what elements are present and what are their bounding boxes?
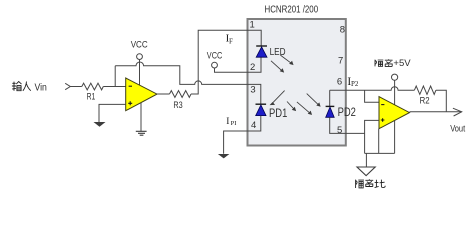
svg-text:PD2: PD2 bbox=[338, 107, 356, 119]
svg-text:+5V: +5V bbox=[393, 58, 411, 69]
light arrow 5 toward PD2 bbox=[297, 102, 310, 113]
svg-text:PD1: PD1 bbox=[269, 108, 287, 120]
wire op-amp output bbox=[157, 93, 170, 95]
light arrow 6 toward PD2 bbox=[307, 94, 319, 105]
wire U3 ground pin down bbox=[394, 120, 396, 153]
svg-text:F: F bbox=[229, 37, 233, 45]
wire R2 to output node bbox=[436, 90, 446, 112]
wire VCC to op-amp power pin bbox=[139, 60, 141, 86]
plus marker U3 bbox=[381, 118, 385, 122]
wire R3 to LED loop bbox=[191, 30, 261, 94]
svg-text:HCNR201 /200: HCNR201 /200 bbox=[265, 4, 319, 16]
ground arrow pin 4 bbox=[218, 154, 230, 158]
op-amp U2 bbox=[126, 78, 157, 111]
svg-text:LED: LED bbox=[270, 47, 286, 58]
node junction feedback bbox=[114, 66, 116, 87]
wire U3 output bbox=[410, 111, 462, 113]
wire U3 plus input down bbox=[365, 120, 379, 153]
wire pin 3 to PD1 bbox=[248, 84, 261, 104]
svg-text:R1: R1 bbox=[87, 91, 96, 102]
输入 label bbox=[12, 82, 31, 91]
output arrow bbox=[453, 108, 462, 116]
input arrow bbox=[65, 83, 70, 89]
svg-text:3: 3 bbox=[250, 84, 255, 95]
svg-text:VCC: VCC bbox=[207, 50, 223, 60]
svg-text:5: 5 bbox=[337, 125, 342, 136]
隔离+5V label bbox=[375, 59, 393, 66]
isolated +5V terminal circle bbox=[392, 74, 398, 80]
wire PD2 cathode up bbox=[329, 90, 331, 106]
svg-text:R3: R3 bbox=[173, 100, 182, 111]
resistor R1 bbox=[82, 83, 104, 90]
resistor R3 bbox=[170, 91, 192, 98]
VCC terminal circle 1 bbox=[137, 54, 143, 60]
VCC terminal circle 2 bbox=[212, 62, 218, 68]
light arrow 1 bbox=[280, 55, 291, 63]
svg-text:2: 2 bbox=[250, 62, 255, 73]
svg-text:7: 7 bbox=[338, 56, 343, 67]
PD2 cathode bar bbox=[326, 105, 335, 107]
isolated ground symbol bbox=[357, 167, 375, 176]
ground rail isolated bbox=[365, 152, 395, 154]
wire input to R1 bbox=[70, 86, 82, 88]
svg-text:6: 6 bbox=[337, 77, 342, 88]
svg-text:1: 1 bbox=[250, 20, 255, 31]
minus marker U2 bbox=[129, 85, 132, 87]
op-amp U3 bbox=[379, 97, 410, 129]
photodiode PD1 bbox=[256, 105, 266, 116]
wire +5V to op-amp U3 power pin bbox=[394, 80, 396, 105]
signal ground U2 bbox=[136, 131, 147, 135]
minus marker U3 bbox=[381, 104, 384, 106]
LED D1 bbox=[256, 47, 267, 57]
light arrow 3 toward PD1 bbox=[272, 91, 285, 104]
wire U3 bottom corner down bbox=[378, 129, 380, 154]
photodiode PD2 bbox=[326, 107, 335, 117]
LED cathode bar bbox=[256, 45, 267, 47]
wire op-amp plus input bbox=[99, 104, 126, 122]
ground arrow input side bbox=[94, 122, 106, 127]
PD1 cathode bar bbox=[256, 103, 267, 105]
隔离地 label bbox=[355, 179, 385, 188]
svg-text:Vin: Vin bbox=[35, 81, 48, 93]
resistor R2 bbox=[414, 86, 436, 94]
plus marker U2 bbox=[128, 101, 132, 105]
svg-text:R2: R2 bbox=[420, 96, 430, 107]
optocoupler U1 HCNR201/200 package body bbox=[248, 19, 346, 146]
wire pin 6 node to R2 with hop over +5V drop bbox=[330, 87, 415, 90]
svg-text:I: I bbox=[226, 117, 229, 127]
isolated ground stub bbox=[365, 153, 367, 167]
wire PD1 anode to pin 4 and ground bbox=[224, 116, 261, 154]
wire PD2 anode to pin 5 bbox=[330, 117, 365, 133]
wire pin6 node to U3 inverting input bbox=[365, 90, 379, 102]
wire VCC2 to pin 2 and LED cathode bbox=[215, 57, 262, 72]
svg-text:PI: PI bbox=[231, 120, 237, 127]
light arrow 2 bbox=[271, 61, 282, 71]
feedback wire top with hop over VCC drop bbox=[115, 62, 247, 84]
svg-text:4: 4 bbox=[251, 120, 256, 131]
svg-text:VCC: VCC bbox=[131, 40, 148, 50]
op-amp U2 ground pin wire bbox=[140, 103, 142, 132]
wire R1 to op-amp U2 inverting input bbox=[103, 86, 125, 88]
light arrow 4 bbox=[287, 102, 294, 110]
svg-text:P2: P2 bbox=[351, 80, 359, 88]
svg-text:8: 8 bbox=[340, 25, 345, 36]
svg-text:Vout: Vout bbox=[450, 123, 465, 134]
